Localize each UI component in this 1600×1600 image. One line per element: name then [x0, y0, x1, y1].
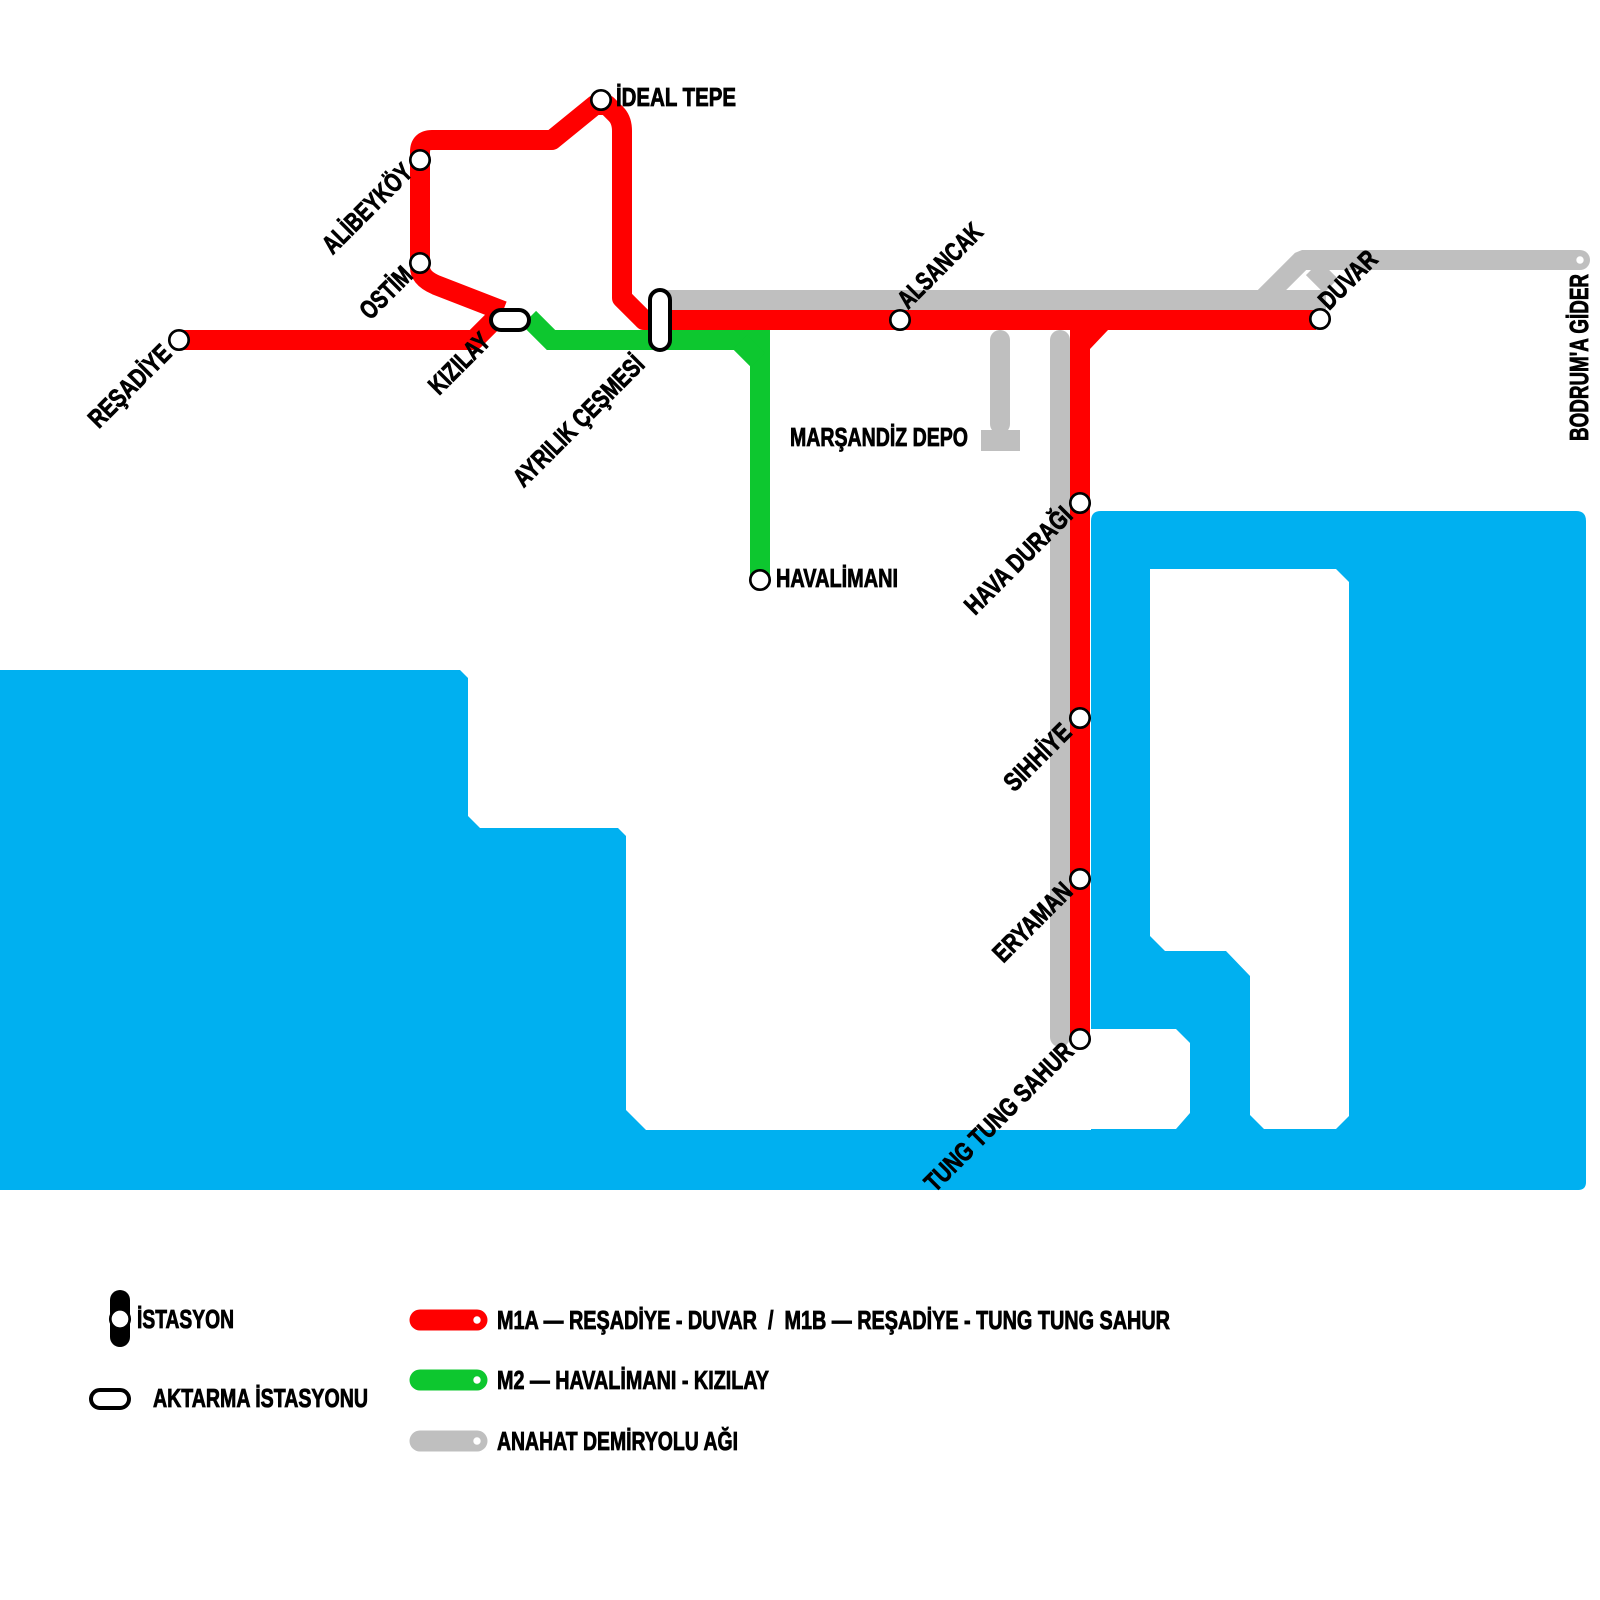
- gray crossover link to DUVAR stub: [1313, 268, 1331, 286]
- station DUVAR: [1310, 309, 1329, 328]
- station SIHHIYE: [1070, 708, 1089, 727]
- svg-text:AKTARMA İSTASYONU: AKTARMA İSTASYONU: [153, 1383, 368, 1413]
- water right mass: [1091, 511, 1586, 1190]
- station HAVA DURAGI: [1070, 493, 1089, 512]
- red line M1 segment Resadiye-Kizilay: [182, 311, 503, 340]
- red line M1 main loop path: [420, 105, 1316, 320]
- transfer pill KIZILAY: [491, 310, 529, 330]
- water cutout white lower-left: [1091, 1029, 1190, 1129]
- gray main line (ANAHAT) horizontal + branch to BODRUM: [655, 260, 1580, 300]
- station ALSANCAK: [890, 310, 909, 329]
- gray end white dot: [1576, 256, 1583, 263]
- legend green pill: [420, 1370, 477, 1391]
- legend red pill: [420, 1310, 477, 1331]
- transfer pill AYRILIK CESMESI: [650, 290, 670, 350]
- station ALIBEYKOY: [410, 150, 429, 169]
- legend green pill dot: [473, 1376, 480, 1383]
- svg-text:M2 — HAVALİMANI - KIZILAY: M2 — HAVALİMANI - KIZILAY: [497, 1365, 769, 1395]
- svg-text:MARŞANDİZ DEPO: MARŞANDİZ DEPO: [790, 422, 968, 452]
- station HAVALIMANI: [750, 570, 769, 589]
- legend gray pill: [420, 1431, 477, 1452]
- legend red pill dot: [473, 1316, 480, 1323]
- water cutout white big: [1150, 569, 1349, 1129]
- water bottom strip: [640, 1130, 1586, 1190]
- gray line end cap BODRUM: [1570, 250, 1590, 270]
- station OSTIM: [410, 253, 429, 272]
- red branch fillet: [1090, 330, 1108, 349]
- legend aktarma symbol: [91, 1390, 129, 1408]
- green inner corner chamfer: [740, 342, 758, 360]
- legend istasyon symbol circle: [110, 1309, 129, 1328]
- svg-text:HAVALİMANI: HAVALİMANI: [776, 563, 898, 593]
- svg-text:BODRUM'A GİDER: BODRUM'A GİDER: [1564, 274, 1594, 441]
- svg-text:ANAHAT DEMİRYOLU AĞI: ANAHAT DEMİRYOLU AĞI: [497, 1426, 738, 1456]
- green line M2: [529, 318, 760, 576]
- red branch south vertical: [1070, 320, 1090, 1040]
- svg-text:İDEAL TEPE: İDEAL TEPE: [616, 82, 736, 112]
- station ERYAMAN: [1070, 869, 1089, 888]
- svg-text:İSTASYON: İSTASYON: [137, 1304, 234, 1334]
- svg-text:M1A — REŞADİYE - DUVAR / M1B: M1A — REŞADİYE - DUVAR / M1B — REŞADİYE …: [497, 1305, 1170, 1335]
- station TUNG TUNG SAHUR: [1070, 1029, 1089, 1048]
- water left mass: [0, 670, 646, 1190]
- station RESADIYE: [169, 330, 188, 349]
- legend gray pill dot: [473, 1437, 480, 1444]
- legend istasyon symbol capsule: [110, 1290, 130, 1347]
- station IDEAL TEPE: [591, 90, 610, 109]
- gray depo branch vertical: [990, 340, 1010, 424]
- gray stub to DUVAR: [1262, 290, 1326, 310]
- gray depo buffer bar: [981, 430, 1020, 451]
- gray vertical line (south): [1050, 340, 1070, 1037]
